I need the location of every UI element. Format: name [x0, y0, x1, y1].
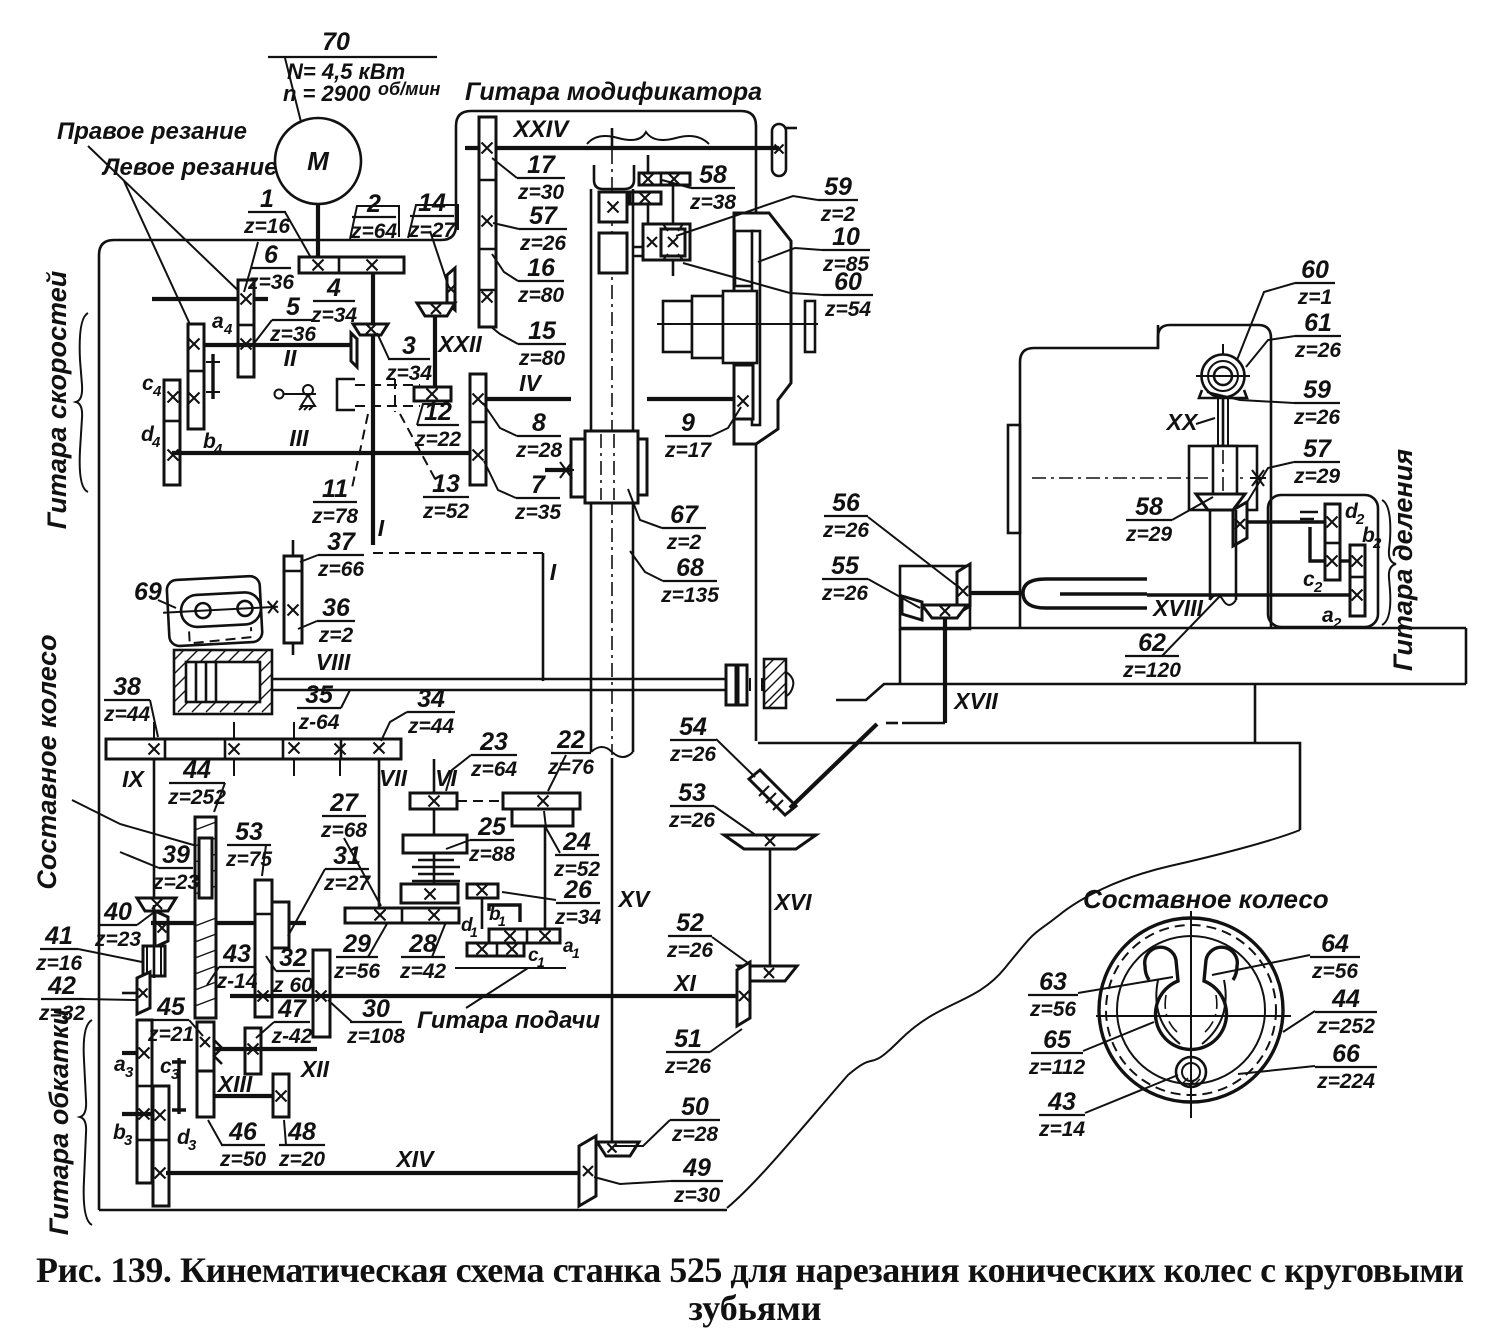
handle on XXIV [772, 124, 797, 176]
svg-text:31: 31 [333, 842, 361, 870]
svg-text:z=44: z=44 [407, 715, 454, 738]
svg-text:29: 29 [342, 930, 371, 958]
gear 47 on XII [245, 1028, 261, 1074]
label 49 z=30 [671, 1154, 723, 1207]
svg-text:Гитара деления: Гитара деления [1388, 449, 1418, 671]
svg-text:z=120: z=120 [1122, 659, 1181, 682]
spindle centerline dashed [611, 150, 613, 755]
label 6 z=36 [247, 241, 294, 294]
rolling shaft b3 [122, 1112, 153, 1116]
spindle left wall [590, 189, 593, 431]
svg-text:z=30: z=30 [673, 1184, 720, 1207]
label 25 z=88 [468, 813, 515, 866]
leader 53 to gear [262, 845, 266, 876]
svg-text:XIV: XIV [394, 1146, 435, 1172]
svg-text:z=52: z=52 [422, 500, 469, 523]
leader 48 to gear [284, 1120, 286, 1145]
svg-text:51: 51 [674, 1025, 702, 1053]
shaft IX vertical [153, 759, 156, 902]
svg-text:z=50: z=50 [219, 1148, 266, 1171]
shaft VI low [433, 853, 436, 884]
bed bottom line [758, 743, 1300, 830]
shaft IV right [647, 397, 734, 401]
compound gear train 38-35-34 [106, 739, 401, 759]
vertical spindle XVIII wide shaft [1210, 510, 1236, 605]
train shaft ticks [154, 722, 340, 776]
label 57r z=29 [1293, 435, 1340, 488]
svg-text:1: 1 [498, 913, 506, 929]
label 42 z=32 [38, 972, 85, 1025]
leader 58r to bevel [1172, 497, 1213, 520]
svg-text:59: 59 [1303, 376, 1331, 404]
leader 29 to train [368, 922, 388, 957]
leader 30 to gear [328, 1000, 352, 1022]
svg-text:z=252: z=252 [1316, 1015, 1375, 1038]
leader 59 to diff [676, 196, 818, 236]
label 68 z=135 [660, 554, 719, 607]
svg-text:a: a [212, 310, 224, 333]
svg-text:3: 3 [125, 1064, 134, 1081]
gear pair 58 [639, 173, 690, 185]
gear b2-a2 block [1350, 545, 1365, 616]
svg-text:Гитара скоростей: Гитара скоростей [42, 270, 72, 529]
svg-text:60: 60 [1301, 256, 1329, 284]
differential housing with bevel gears 59 [643, 224, 690, 276]
label 53r z=26 [668, 779, 715, 832]
label 65 z=112 [1028, 1026, 1086, 1079]
gear block 6-5 [238, 280, 254, 377]
leader 28 to train [432, 922, 446, 957]
svg-text:z=80: z=80 [517, 284, 564, 307]
label 50 z=28 [670, 1093, 720, 1146]
svg-text:об/мин: об/мин [378, 79, 440, 99]
svg-text:43: 43 [1047, 1088, 1076, 1116]
svg-text:2: 2 [1372, 535, 1382, 552]
svg-text:z-14: z-14 [216, 970, 258, 993]
leader 15 to gear [490, 326, 518, 344]
svg-text:Гитара подачи: Гитара подачи [417, 1007, 600, 1034]
label 38 z=44 [103, 673, 150, 726]
svg-text:z=78: z=78 [311, 505, 358, 528]
gear 25 [403, 835, 467, 853]
clutch dashed housing [355, 379, 420, 412]
XVII short line [902, 722, 945, 725]
svg-text:53: 53 [235, 818, 263, 846]
svg-text:XII: XII [299, 1056, 330, 1082]
gear 24 under 22 [512, 809, 573, 826]
svg-text:15: 15 [528, 317, 557, 345]
gear block c4-d4 [164, 380, 180, 485]
leader 22 to gear dashed [548, 755, 566, 791]
svg-text:39: 39 [162, 841, 190, 869]
leader 5 to gear [252, 320, 272, 346]
shaft XIV [166, 1171, 588, 1175]
leader 45 to clutch [189, 1020, 203, 1036]
svg-text:65: 65 [1043, 1026, 1072, 1054]
svg-text:XX: XX [1165, 409, 1199, 435]
svg-text:43: 43 [222, 940, 251, 968]
shaft VI mid [433, 809, 436, 835]
svg-text:Левое резание: Левое резание [101, 154, 278, 181]
svg-text:z=32: z=32 [38, 1002, 85, 1025]
leader 60 to wheel [1237, 283, 1295, 360]
svg-text:XXIV: XXIV [512, 116, 571, 143]
gear block 37-36 [284, 556, 302, 643]
svg-text:z-42: z-42 [271, 1025, 313, 1048]
svg-text:69: 69 [134, 578, 162, 606]
bed band divider [1254, 684, 1257, 743]
svg-text:z=2: z=2 [666, 531, 702, 554]
bracket c2 [1310, 527, 1325, 561]
shaft XI [230, 994, 737, 998]
leader 8 to gear [483, 403, 517, 436]
svg-text:49: 49 [682, 1154, 711, 1182]
label 2 z=64 [350, 190, 397, 243]
svg-text:9: 9 [681, 409, 695, 437]
svg-text:II: II [284, 345, 297, 371]
svg-text:z=36: z=36 [269, 323, 316, 346]
inclined shaft [790, 724, 877, 808]
svg-text:z=56: z=56 [1029, 998, 1076, 1021]
svg-text:z=21: z=21 [147, 1023, 194, 1046]
svg-text:47: 47 [277, 995, 307, 1023]
svg-text:38: 38 [113, 673, 141, 701]
leader 53r flag [714, 806, 757, 836]
label 3 z=34 [385, 332, 432, 385]
svg-text:4: 4 [213, 441, 223, 458]
leader 43 to column [207, 967, 219, 985]
svg-text:z 60: z 60 [272, 974, 313, 997]
machine column body [1020, 325, 1271, 628]
svg-text:z=30: z=30 [517, 181, 564, 204]
svg-text:14: 14 [418, 189, 446, 217]
gear 60 on spindle [599, 233, 627, 273]
svg-text:11: 11 [322, 475, 348, 503]
svg-text:XVII: XVII [952, 688, 998, 714]
label 13 z=52 [422, 470, 469, 523]
svg-text:Гитара модификатора: Гитара модификатора [465, 78, 762, 106]
gear 26 [467, 884, 498, 898]
leader 60 to diff [683, 263, 823, 295]
label 37 z=66 [317, 528, 364, 581]
gear 12 on XXII [414, 387, 451, 401]
leader 67 to drum [628, 489, 662, 528]
svg-text:z=23: z=23 [94, 928, 141, 951]
clutch bracket on shaft I [337, 379, 355, 410]
shaft of gear 36 down [292, 643, 295, 655]
bevel gear 57 flag [1233, 502, 1247, 546]
bevel gear 55 flat flag [922, 605, 967, 618]
index worm wheel 61 circles [1196, 344, 1250, 398]
svg-text:z=88: z=88 [468, 843, 515, 866]
svg-text:z=26: z=26 [668, 809, 715, 832]
spindle right wall lower [632, 503, 635, 752]
gear c3-d3 block [153, 1086, 169, 1206]
svg-text:z=17: z=17 [664, 439, 712, 462]
leader 57 to gear [493, 223, 519, 229]
shaft III [172, 451, 470, 455]
svg-text:60: 60 [834, 268, 862, 296]
svg-text:z=29: z=29 [1125, 523, 1172, 546]
leader 44w to wheel [1283, 1011, 1315, 1032]
svg-text:64: 64 [1321, 930, 1349, 958]
svg-text:17: 17 [527, 151, 556, 179]
label 43w z=14 [1038, 1088, 1085, 1141]
oil pump 69 [161, 575, 279, 647]
gear 53 tall [255, 880, 272, 1017]
svg-text:44: 44 [182, 756, 211, 784]
shaft XIII [214, 1094, 273, 1098]
leader 46 to gear [208, 1120, 222, 1145]
label 55 z=26 [821, 552, 868, 605]
friction disc stack [412, 860, 460, 881]
shaft XVII link [970, 591, 1023, 595]
svg-text:z=44: z=44 [103, 703, 150, 726]
svg-text:I: I [550, 559, 557, 585]
body centerline [1032, 477, 1248, 479]
shaft VII vertical [378, 759, 381, 915]
svg-text:25: 25 [477, 813, 507, 841]
gear block 17-57-16-15 [479, 117, 496, 327]
label 51 z=26 [664, 1025, 711, 1078]
svg-text:z=64: z=64 [470, 758, 517, 781]
worm drum 67 [571, 431, 647, 503]
shaft b1 vertical [481, 898, 484, 929]
leader 55 to bevel [868, 579, 920, 608]
svg-text:1: 1 [572, 945, 580, 961]
leader 41 to worm [78, 949, 142, 962]
label 66 z=224 [1315, 1040, 1377, 1093]
svg-text:36: 36 [322, 594, 351, 622]
leader 7 to gear [484, 461, 516, 498]
bed right step [1465, 628, 1468, 684]
svg-text:3: 3 [171, 1066, 180, 1083]
leader 57r to bevel [1246, 462, 1294, 504]
svg-text:М: М [307, 146, 330, 176]
svg-text:41: 41 [44, 922, 73, 950]
leader 65 to wheel [1083, 1022, 1154, 1051]
flag outline 2 [350, 206, 399, 239]
svg-text:Составное колесо: Составное колесо [32, 634, 62, 889]
label 10 z=85 [822, 223, 870, 276]
label 56 z=26 [822, 489, 869, 542]
leader 68 to column [630, 551, 663, 581]
motor M [275, 118, 361, 204]
label 9 z=17 [664, 409, 712, 462]
svg-text:52: 52 [676, 909, 704, 937]
label 15 z=80 [518, 317, 566, 370]
bed top line [900, 627, 1466, 630]
bevel gear 54 flag [749, 770, 796, 815]
brace over modifier guitar [587, 132, 709, 144]
svg-text:z=135: z=135 [660, 584, 719, 607]
svg-text:XV: XV [617, 886, 651, 912]
brace for Гитара деления [1382, 500, 1396, 625]
leader 16 to gear [492, 254, 518, 281]
leader 61 to wheel [1246, 336, 1295, 367]
label 67 z=2 [662, 501, 706, 554]
frame bottom edge [99, 1209, 727, 1212]
leader dashed leader to 13 [400, 414, 440, 488]
svg-text:z=29: z=29 [1293, 465, 1340, 488]
bevel gear 53 flat [724, 835, 816, 849]
label 7 z=35 [514, 471, 561, 524]
svg-text:63: 63 [1039, 968, 1067, 996]
brace for Гитара скоростей [76, 313, 88, 492]
bevel gear 39 flat [137, 898, 176, 911]
label 28 z=42 [399, 930, 446, 983]
gear a3 block [137, 1020, 152, 1183]
svg-text:z=26: z=26 [821, 582, 868, 605]
label 5 z=36 [269, 293, 316, 346]
svg-text:z=22: z=22 [414, 428, 461, 451]
svg-text:26: 26 [563, 876, 593, 904]
bevel gear 56 box [900, 566, 970, 629]
label 12 z=22 [414, 398, 461, 451]
svg-text:35: 35 [305, 681, 334, 709]
svg-text:2: 2 [1332, 615, 1342, 632]
label 1 z=16 [243, 185, 290, 238]
shaft IV stub with star [545, 462, 574, 478]
leader 14 to bevel [430, 231, 449, 288]
svg-text:XVIII: XVIII [1151, 595, 1203, 621]
svg-text:z=66: z=66 [317, 558, 364, 581]
leader 58 to gear [662, 180, 691, 188]
svg-text:37: 37 [327, 528, 356, 556]
bevel gear 40 flag [155, 911, 168, 947]
svg-text:8: 8 [532, 409, 546, 437]
shaft VI vertical [433, 759, 436, 793]
label 36 z=2 [317, 594, 355, 647]
brace for Гитара обкатки [80, 1020, 92, 1225]
motor shaft I [316, 204, 320, 258]
svg-text:z=36: z=36 [247, 271, 294, 294]
svg-text:z=224: z=224 [1316, 1070, 1375, 1093]
XVII step dash [886, 722, 898, 725]
leader 42 to bevel [83, 999, 136, 1000]
svg-text:3: 3 [402, 332, 416, 360]
shaft I vertical [371, 273, 375, 545]
label 59 z=2 [818, 173, 858, 226]
gear 27 lower [401, 884, 458, 903]
svg-text:XIII: XIII [216, 1071, 253, 1097]
svg-text:z=23: z=23 [152, 871, 199, 894]
gear 10 on spindle [599, 192, 627, 222]
leader 50 flag [614, 1120, 670, 1146]
label 62 z=120 [1122, 629, 1181, 682]
svg-text:z=28: z=28 [671, 1123, 718, 1146]
shaft XX stem [1217, 398, 1219, 448]
vertical link 56 to XVII [943, 618, 947, 723]
gear block 8-7 [470, 374, 486, 485]
svg-text:z=26: z=26 [669, 743, 716, 766]
leader 27 to gear [344, 838, 381, 906]
svg-text:z=20: z=20 [278, 1148, 325, 1171]
leader 25 to gear [446, 840, 470, 849]
spindle top tick [611, 128, 614, 150]
label 22 z=76 [547, 726, 594, 779]
leader 56 to bevel [868, 517, 956, 585]
shifter fork symbol [275, 385, 317, 410]
svg-text:62: 62 [1138, 629, 1166, 657]
shaft XVIII [1147, 593, 1350, 596]
label 31 z=27 [323, 842, 371, 895]
svg-text:48: 48 [287, 1118, 316, 1146]
svg-text:z=26: z=26 [666, 939, 713, 962]
diff shaft vertical a [647, 155, 650, 173]
diff input shaft [672, 185, 675, 228]
label 14 z=27 [408, 189, 456, 242]
leader 62 to spindle [1162, 596, 1220, 656]
stub to spindle [633, 247, 643, 256]
svg-text:58: 58 [699, 161, 727, 189]
bed S-curve boundary [727, 830, 1300, 1208]
shaft 41-42 vertical [153, 905, 156, 978]
bevel gear 50 flat [597, 1142, 639, 1156]
shaft XXII vertical [433, 316, 437, 387]
gear VI top [410, 793, 457, 809]
label 61 z=26 [1294, 309, 1341, 362]
label 16 z=80 [517, 254, 564, 307]
label 34 z=44 [407, 685, 455, 738]
svg-text:z=1: z=1 [1297, 286, 1332, 309]
svg-text:34: 34 [417, 685, 445, 713]
flag outline 12 [417, 404, 443, 425]
leader 10 to spindle [758, 248, 822, 262]
svg-text:40: 40 [103, 898, 132, 926]
label 52 z=26 [666, 909, 713, 962]
leader 40 to bevel [137, 913, 153, 925]
svg-text:46: 46 [228, 1118, 258, 1146]
svg-text:z=112: z=112 [1028, 1056, 1086, 1079]
spindle break squiggle [591, 747, 633, 757]
leader from Составное колесо to gear 44 [72, 800, 197, 846]
gear 58 lower [630, 192, 661, 204]
svg-text:z=16: z=16 [243, 215, 290, 238]
bed slot lyre [1023, 579, 1147, 608]
svg-text:1: 1 [260, 185, 274, 213]
cradle housing [734, 213, 791, 444]
label 59r z=26 [1293, 376, 1340, 429]
gear 48 on XIII [273, 1074, 289, 1117]
crank handle b1 [489, 905, 520, 922]
leader 47 to gear [256, 1022, 274, 1038]
svg-text:z=76: z=76 [547, 756, 594, 779]
shaft XVI vertical [769, 849, 772, 966]
label 35 z-64 [297, 681, 341, 734]
svg-text:58: 58 [1135, 493, 1163, 521]
svg-text:z=26: z=26 [519, 232, 566, 255]
gear 9 on cradle [734, 365, 753, 419]
spindle right wall [632, 189, 635, 431]
vertical slide box [1189, 446, 1257, 510]
svg-text:IV: IV [519, 370, 542, 396]
svg-text:7: 7 [531, 471, 546, 499]
bevel gear 3 pair [351, 324, 388, 367]
svg-text:z=80: z=80 [518, 347, 565, 370]
svg-text:16: 16 [527, 254, 556, 282]
label 43 z-14 [216, 940, 258, 993]
label 46 z=50 [219, 1118, 266, 1171]
shaft II [204, 343, 352, 347]
label 44 z=252 [167, 756, 226, 809]
shaft 42 horizontal [122, 992, 137, 995]
svg-text:I: I [378, 515, 385, 541]
svg-text:XI: XI [672, 970, 696, 996]
leader 44 to column [214, 783, 225, 812]
screw thread ticks [750, 678, 762, 691]
leader 43w to wheel [1085, 1075, 1178, 1113]
